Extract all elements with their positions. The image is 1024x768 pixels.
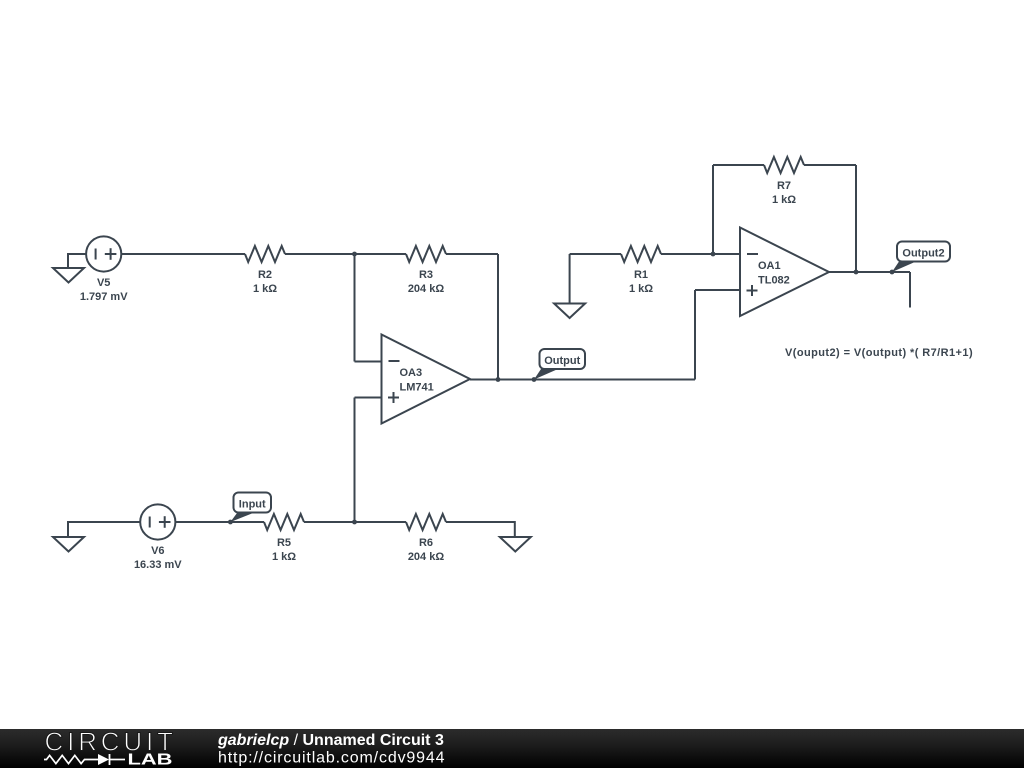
wire output up to OA1 non-inverting input [695, 290, 740, 380]
svg-text:V(ouput2) = V(output) *( R7/R1: V(ouput2) = V(output) *( R7/R1+1) [785, 347, 973, 359]
wire V5 to R2 [121, 253, 245, 255]
svg-text:1 kΩ: 1 kΩ [253, 283, 277, 295]
wire feedback right vertical down to output [804, 165, 856, 272]
svg-text:OA1: OA1 [758, 260, 781, 272]
wire R2 to R3 [285, 253, 406, 255]
svg-text:TL082: TL082 [758, 275, 790, 287]
wire R3 to feedback corner [446, 253, 498, 255]
wire ground up to R1 [570, 254, 621, 304]
junction Output flag anchor [532, 377, 537, 382]
wire OA3 non-inverting input left [355, 397, 382, 399]
ground G3 [500, 537, 531, 552]
svg-text:Output: Output [544, 355, 580, 367]
resistor R7 [764, 157, 804, 173]
svg-text:1.797 mV: 1.797 mV [80, 291, 128, 303]
voltage source V6 [140, 504, 175, 539]
junction Input flag anchor [228, 520, 233, 525]
svg-text:OA3: OA3 [400, 367, 423, 379]
wire feedback up left vertical [713, 165, 764, 254]
svg-text:1 kΩ: 1 kΩ [272, 551, 296, 563]
svg-text:LM741: LM741 [400, 382, 434, 394]
wire V6 to R5 [175, 521, 264, 523]
wire node down to OA3 inverting input [355, 254, 382, 362]
wire R6 to ground G3 [446, 521, 515, 537]
svg-text:1 kΩ: 1 kΩ [629, 283, 653, 295]
wire R5 to R6 [304, 521, 406, 523]
resistor R5 [264, 514, 304, 530]
resistor R2 [245, 246, 285, 262]
svg-text:204 kΩ: 204 kΩ [408, 283, 445, 295]
junction feedback / output [854, 270, 859, 275]
svg-text:1 kΩ: 1 kΩ [772, 194, 796, 206]
junction node at R2/R3/inverting input [352, 252, 357, 257]
junction OA3 output / feedback [496, 377, 501, 382]
svg-text:V5: V5 [97, 277, 110, 289]
svg-text:R3: R3 [419, 269, 433, 281]
ground G2 (V6 negative) [53, 521, 140, 552]
svg-text:R6: R6 [419, 537, 433, 549]
svg-text:Input: Input [239, 499, 266, 511]
svg-text:204 kΩ: 204 kΩ [408, 551, 445, 563]
op-amp OA3 LM741 [382, 335, 471, 424]
wire output stub down [909, 272, 911, 308]
ground G4 (R1 input) [554, 304, 585, 319]
ground G1 (V5 negative) [53, 253, 86, 283]
svg-text:R7: R7 [777, 180, 791, 192]
net flag Input [230, 493, 271, 523]
svg-text:16.33 mV: 16.33 mV [134, 559, 182, 571]
wire feedback vertical down to OA3 output [497, 254, 499, 380]
wire down to bottom rail [354, 398, 356, 523]
junction Output2 flag anchor [890, 270, 895, 275]
resistor R1 [621, 246, 661, 262]
wire OA1 output [829, 271, 910, 273]
svg-text:R1: R1 [634, 269, 648, 281]
resistor R3 [406, 246, 446, 262]
wire R1 to OA1 inverting input [661, 253, 740, 255]
svg-text:R5: R5 [277, 537, 291, 549]
svg-text:http://circuitlab.com/cdv9944: http://circuitlab.com/cdv9944 [218, 750, 445, 767]
CircuitLab logo diode [98, 754, 125, 765]
junction bottom rail / OA3 non-inverting [352, 520, 357, 525]
junction R1 / feedback R7 [711, 252, 716, 257]
voltage source V5 [86, 236, 121, 271]
CircuitLab logo resistor zigzag [44, 755, 98, 763]
op-amp OA1 TL082 [740, 228, 829, 317]
svg-text:LAB: LAB [128, 752, 173, 768]
net flag Output [534, 349, 585, 380]
svg-text:V6: V6 [151, 545, 164, 557]
wire OA3 output [470, 379, 695, 381]
svg-text:R2: R2 [258, 269, 272, 281]
resistor R6 [406, 514, 446, 530]
net flag Output2 [892, 242, 950, 273]
footer bar [0, 729, 1024, 768]
svg-text:gabrielcp / Unnamed Circuit 3: gabrielcp / Unnamed Circuit 3 [217, 732, 444, 749]
svg-text:Output2: Output2 [902, 248, 944, 260]
